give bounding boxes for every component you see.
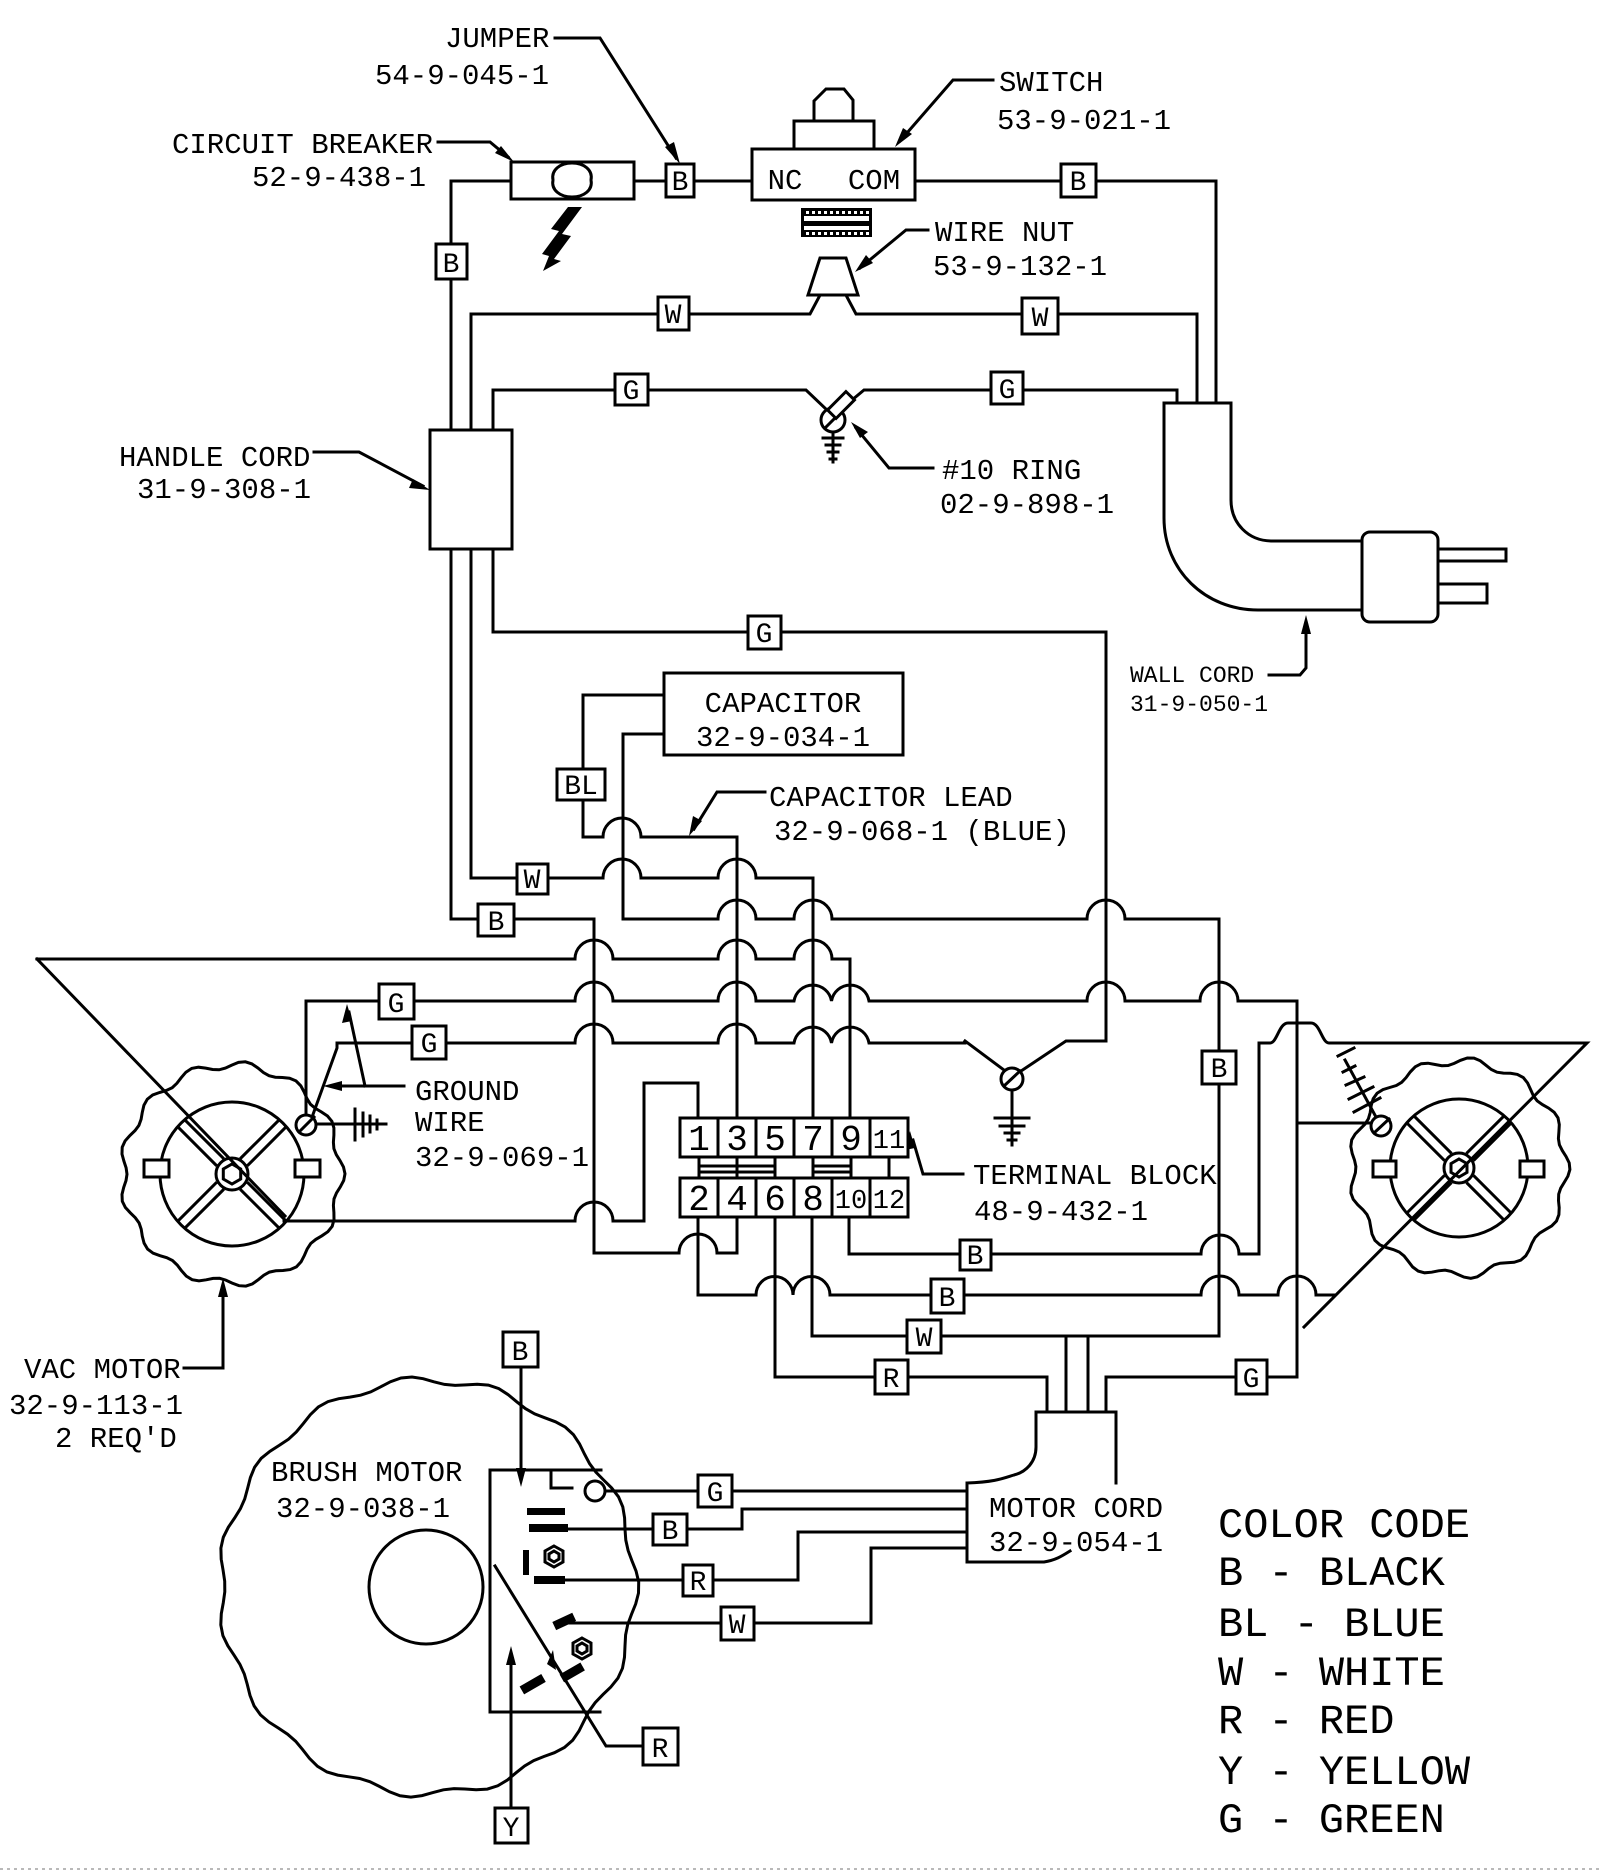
svg-text:G: G [999, 376, 1016, 407]
circuit breaker 52-9-438-1 [511, 162, 634, 199]
svg-text:Y: Y [503, 1814, 520, 1845]
svg-text:Y - YELLOW: Y - YELLOW [1218, 1749, 1471, 1797]
svg-text:02-9-898-1: 02-9-898-1 [940, 489, 1114, 522]
wire B black: switch COM right, down to wall cord [915, 181, 1216, 403]
left triangle diagonal [37, 959, 285, 1216]
wire B black: terminal 2 down to B box row toward right motor [698, 1217, 1335, 1295]
label B left vertical [436, 244, 467, 281]
leader wall cord [1269, 615, 1311, 675]
svg-text:B: B [672, 168, 689, 199]
svg-text:6: 6 [764, 1180, 786, 1221]
label G long line [748, 616, 781, 651]
svg-text:G: G [707, 1479, 724, 1510]
wire G green: brush motor terminal to G box to motor cord [604, 1490, 967, 1493]
svg-text:WIRE: WIRE [415, 1107, 485, 1140]
label G top line left [615, 374, 648, 408]
svg-text:R: R [883, 1365, 900, 1396]
svg-text:B: B [662, 1517, 679, 1548]
svg-text:CIRCUIT BREAKER: CIRCUIT BREAKER [172, 129, 433, 162]
motor cord 32-9-054-1 [967, 1412, 1116, 1562]
label W top line right [1022, 298, 1058, 335]
svg-text:32-9-034-1: 32-9-034-1 [696, 722, 870, 755]
svg-text:48-9-432-1: 48-9-432-1 [974, 1196, 1148, 1229]
svg-text:32-9-113-1: 32-9-113-1 [9, 1390, 183, 1423]
svg-text:W: W [1032, 304, 1049, 335]
svg-text:R: R [652, 1735, 669, 1766]
svg-text:32-9-069-1: 32-9-069-1 [415, 1142, 589, 1175]
lightning bolt [542, 207, 582, 271]
handle cord 31-9-308-1 box [430, 430, 512, 549]
label B brush motor top [503, 1332, 538, 1369]
wire W white: brush motor to W box to motor cord [570, 1548, 967, 1623]
leader brush motor R2 (diagonal) [495, 1566, 643, 1746]
leader circuit breaker [438, 142, 514, 162]
svg-text:10: 10 [835, 1187, 867, 1217]
label B terminal2 row [931, 1279, 964, 1315]
svg-text:2 REQ'D: 2 REQ'D [55, 1423, 177, 1456]
mid ground ring terminal [995, 1068, 1029, 1145]
svg-text:B - BLACK: B - BLACK [1218, 1550, 1446, 1598]
label B row3 [478, 904, 514, 939]
label B switch right [1061, 164, 1096, 199]
wire G green row6: from left motor ring diagonal, G box row, humps, to mid ring [311, 1024, 965, 1120]
svg-text:G: G [388, 990, 405, 1021]
svg-text:G: G [1243, 1365, 1260, 1396]
svg-text:7: 7 [802, 1120, 824, 1161]
wire B black: circuit breaker left to handle cord to B box row then down to terminal 4 [451, 181, 737, 1253]
leader vac motor [184, 1278, 228, 1368]
wire R red: brush motor to R box to motor cord [564, 1532, 967, 1580]
label W terminal8 row [907, 1320, 941, 1355]
#10 ring terminal (top) [821, 392, 854, 462]
wire G green: ring to right, down into wall cord [840, 390, 1177, 410]
wire W white: wall cord up over to handle cord, down to W row, to terminal 7 [471, 297, 1197, 1118]
svg-text:3: 3 [726, 1120, 748, 1161]
svg-text:B: B [488, 908, 505, 939]
svg-text:HANDLE CORD: HANDLE CORD [119, 442, 310, 475]
svg-text:32-9-038-1: 32-9-038-1 [276, 1493, 450, 1526]
wire jumper B: circuit breaker right to switch NC [634, 180, 752, 183]
svg-text:WIRE NUT: WIRE NUT [935, 217, 1074, 250]
left motor ground ring + ticks [296, 1109, 386, 1140]
svg-text:G: G [421, 1030, 438, 1061]
svg-text:1: 1 [688, 1120, 710, 1161]
svg-text:4: 4 [726, 1180, 748, 1221]
svg-text:NC: NC [768, 165, 803, 198]
svg-text:2: 2 [688, 1180, 710, 1221]
svg-text:B: B [939, 1284, 956, 1315]
svg-text:32-9-054-1: 32-9-054-1 [989, 1527, 1163, 1560]
leader jumper [555, 38, 680, 164]
svg-text:WALL CORD: WALL CORD [1130, 663, 1254, 689]
svg-text:52-9-438-1: 52-9-438-1 [252, 162, 426, 195]
svg-text:R: R [690, 1568, 707, 1599]
wire G green: left part of top G line to ring [493, 390, 827, 410]
wire row4: left vac motor wire to terminal 9 [37, 940, 850, 1118]
wire left vac motor to terminal 1 [284, 1083, 698, 1221]
svg-text:BL - BLUE: BL - BLUE [1218, 1601, 1445, 1649]
svg-text:B: B [443, 250, 460, 281]
svg-text:31-9-050-1: 31-9-050-1 [1130, 692, 1268, 718]
label B right vertical [1202, 1051, 1236, 1086]
label B terminal10 row [960, 1240, 991, 1273]
wire B black: terminal 10 to B box row to right vac motor, triangle top edge [849, 1023, 1587, 1327]
label G row5 [379, 984, 414, 1021]
svg-text:G - GREEN: G - GREEN [1218, 1797, 1445, 1845]
svg-text:G: G [756, 620, 773, 651]
svg-text:8: 8 [802, 1180, 824, 1221]
capacitor 32-9-034-1 box [664, 673, 903, 755]
leader capacitor lead [689, 792, 765, 836]
svg-text:B: B [967, 1242, 984, 1273]
svg-text:32-9-068-1 (BLUE): 32-9-068-1 (BLUE) [774, 816, 1070, 849]
svg-text:W: W [729, 1611, 746, 1642]
right vac motor 32-9-113-1 [1351, 1058, 1570, 1278]
wire BL blue: capacitor lead 1 down through BL box, hump, down to terminal 3 [583, 695, 737, 1118]
label BL capacitor lead [557, 769, 605, 803]
svg-text:G: G [623, 377, 640, 408]
label Y brush motor [495, 1808, 528, 1845]
leader wire nut [855, 230, 928, 272]
wall cord elbow [1164, 403, 1360, 610]
label W brush motor [721, 1607, 754, 1642]
svg-text:53-9-132-1: 53-9-132-1 [933, 251, 1107, 284]
svg-text:W - WHITE: W - WHITE [1218, 1650, 1445, 1698]
svg-text:BRUSH MOTOR: BRUSH MOTOR [271, 1457, 462, 1490]
svg-text:CAPACITOR LEAD: CAPACITOR LEAD [769, 782, 1013, 815]
label G row6 [412, 1026, 446, 1061]
svg-text:W: W [524, 866, 541, 897]
svg-text:12: 12 [873, 1187, 905, 1217]
left vac motor 32-9-113-1 [122, 1062, 345, 1286]
leader #10 ring [851, 422, 933, 468]
label B jumper [666, 164, 694, 199]
brush motor terminal plate [490, 1470, 605, 1712]
svg-text:COM: COM [848, 165, 900, 198]
svg-text:GROUND: GROUND [415, 1076, 519, 1109]
label G top line right [991, 372, 1023, 407]
svg-text:#10 RING: #10 RING [942, 455, 1081, 488]
leader brush motor B (down arrow) [516, 1367, 526, 1487]
label G brush motor [698, 1475, 732, 1510]
svg-text:MOTOR CORD: MOTOR CORD [989, 1493, 1163, 1526]
switch 53-9-021-1 body [752, 89, 915, 200]
svg-text:9: 9 [840, 1120, 862, 1161]
svg-text:SWITCH: SWITCH [999, 67, 1103, 100]
svg-text:CAPACITOR: CAPACITOR [705, 688, 862, 721]
bottom dotted separator [0, 1868, 1600, 1870]
svg-text:B: B [1070, 168, 1087, 199]
label W row2 [517, 864, 548, 897]
terminal block 48-9-432-1 [680, 1118, 908, 1221]
label W top line left [658, 297, 689, 332]
svg-text:COLOR CODE: COLOR CODE [1218, 1502, 1470, 1550]
label R brush motor lower [643, 1728, 678, 1766]
wire nut crimp stripes [801, 208, 872, 237]
svg-text:BL: BL [564, 772, 598, 803]
svg-text:W: W [916, 1324, 933, 1355]
wire G green: left diagonal from mid ground ring up to row6 [965, 1041, 1004, 1070]
label B brush motor [653, 1514, 687, 1548]
svg-text:R - RED: R - RED [1218, 1698, 1394, 1746]
wire nut 53-9-132-1 [808, 258, 858, 295]
svg-text:31-9-308-1: 31-9-308-1 [137, 474, 311, 507]
svg-text:11: 11 [873, 1127, 905, 1157]
leader ground wire (up arrow) [323, 1004, 404, 1091]
wire B black: brush motor to B box to motor cord [568, 1509, 967, 1529]
wire G green: handle cord down, long G line, down right side to ground ring [493, 390, 1106, 1071]
svg-text:W: W [665, 301, 682, 332]
svg-text:53-9-021-1: 53-9-021-1 [997, 105, 1171, 138]
svg-text:B: B [1211, 1055, 1228, 1086]
brush motor 32-9-038-1 outline [221, 1377, 639, 1797]
wall cord plug 31-9-050-1 [1362, 532, 1506, 622]
wire capacitor lead 2: down, row3 right, down right side, W row to terminal 8 [623, 734, 1219, 1336]
svg-text:B: B [512, 1338, 529, 1369]
label G motor cord [1236, 1360, 1267, 1396]
wire R red: terminal 6 down to R box row into motor cord [775, 1217, 1047, 1412]
svg-text:5: 5 [764, 1120, 786, 1161]
svg-text:JUMPER: JUMPER [445, 23, 549, 56]
leader switch [895, 80, 993, 147]
svg-text:VAC MOTOR: VAC MOTOR [24, 1354, 181, 1387]
svg-text:54-9-045-1: 54-9-045-1 [375, 60, 549, 93]
leader handle cord [314, 452, 430, 490]
right motor ground ring + diagonal ticks [1338, 1048, 1391, 1136]
label R terminal6 row [875, 1360, 908, 1396]
wire W white: T-drops from W row into motor cord [1066, 1336, 1088, 1412]
wire G green row5: left motor ring up, G box, humps, right side down to G box and motor cord [306, 982, 1297, 1412]
svg-text:TERMINAL BLOCK: TERMINAL BLOCK [973, 1160, 1217, 1193]
label R brush motor [683, 1565, 713, 1599]
leader brush motor Y (up arrow) [506, 1646, 516, 1808]
wire G green: branch to right motor ground ring [1297, 1122, 1371, 1125]
leader terminal block [905, 1131, 963, 1174]
